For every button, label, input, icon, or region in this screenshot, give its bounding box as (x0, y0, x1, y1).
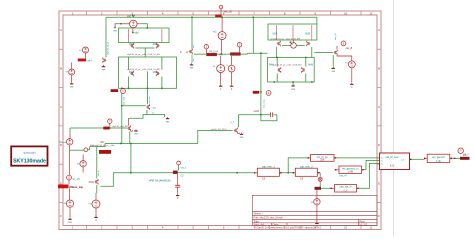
svg-text:+x: +x (65, 71, 68, 74)
svg-text:n_7: n_7 (231, 122, 236, 124)
svg-text:M2A: M2A (129, 71, 134, 74)
border division ticks (59, 11, 381, 230)
node 5 (121, 89, 126, 94)
svg-text:vss: vss (166, 120, 170, 123)
svg-text:net_o2: net_o2 (334, 33, 337, 40)
ground at V8 (94, 216, 97, 218)
voltage source V1 (VDD supply) (130, 20, 138, 28)
voltage source V6 (80, 161, 86, 167)
svg-text:10: 10 (344, 11, 348, 15)
wire C4 to U2 vb (359, 163, 380, 188)
svg-text:Mbias_inp: Mbias_inp (69, 185, 83, 189)
svg-text:Rb: Rb (101, 140, 105, 144)
wire VDD top bus (106, 16, 317, 18)
ground at M12 (190, 63, 193, 65)
svg-text:11: 11 (370, 11, 373, 15)
wire M11 source to V8 (96, 185, 98, 193)
net label in7 flag (103, 127, 109, 130)
wire junctions (109, 16, 313, 173)
svg-text:vdd: vdd (135, 32, 140, 35)
wire R4 to U2 in- (364, 160, 380, 169)
wire R5 to OUT label (453, 157, 461, 159)
ground at M7 (134, 129, 137, 131)
svg-text:in: in (180, 51, 183, 54)
svg-text:res_generic: res_generic (432, 156, 446, 159)
wire tap to R3 (288, 158, 308, 173)
wire mirror arrow feed (293, 40, 295, 43)
wire compensation loop (261, 115, 277, 121)
svg-text:cap_mim_1: cap_mim_1 (262, 165, 276, 168)
IN+ label (60, 141, 64, 144)
device parameter text rows (90, 37, 302, 147)
wire node 7 to bias bus (90, 144, 105, 147)
node 1 (219, 5, 223, 9)
transistor M7 (127, 125, 131, 131)
node pin stubs (69, 123, 110, 184)
svg-text:net_05: net_05 (224, 10, 233, 14)
wire bias bus (105, 143, 198, 145)
wire M3A M3B source drops (276, 47, 312, 58)
voltage source V7 (66, 200, 73, 207)
svg-text:cap_var_lv: cap_var_lv (339, 186, 352, 189)
wire M1A M1B drain pins (128, 29, 162, 43)
wire VDD drop to M12 (191, 17, 193, 49)
resistor block R3 (311, 155, 335, 162)
svg-text:C: C (378, 105, 380, 109)
voltage source V8 (92, 200, 100, 208)
svg-text:vss: vss (331, 70, 335, 73)
svg-text:D: D (378, 143, 380, 147)
svg-text:+v2: +v2 (213, 31, 218, 34)
wire node 6 compensation branch (260, 53, 262, 114)
wire node 7 riser (88, 147, 90, 150)
wire node X to C4 (320, 181, 330, 188)
svg-text:nq: nq (153, 108, 156, 110)
capacitor C7 (compensation) (271, 112, 273, 117)
wire M12 gate stub (186, 51, 188, 53)
resistor R2 (230, 52, 241, 55)
voltage source V2 (divider bias) (218, 32, 226, 40)
wire M8 gate to node 5 net (122, 105, 146, 107)
svg-text:A: A (378, 28, 380, 32)
transistor M9 (234, 128, 238, 134)
transistor M10 (334, 50, 338, 56)
svg-text:net_mir: net_mir (148, 96, 151, 104)
wire M4A M4B drains (277, 58, 306, 67)
transistor M3B (307, 41, 311, 47)
svg-text:vss: vss (68, 221, 72, 224)
svg-text:ota_5t_new: ota_5t_new (386, 156, 399, 159)
transistor M4A (277, 67, 281, 73)
transistor M1B (156, 43, 160, 49)
svg-text:vss: vss (102, 68, 106, 71)
node 10 (67, 175, 72, 180)
svg-text:net05_6.8_(8.0): net05_6.8_(8.0) (211, 128, 227, 131)
svg-text:C5: C5 (262, 178, 266, 181)
wire M4A M4B sources (277, 73, 306, 82)
transistor M4B (302, 67, 306, 73)
node 9a load tap (177, 161, 181, 165)
svg-text:vss: vss (113, 30, 117, 33)
svg-text:res_g,+1: res_g,+1 (209, 50, 219, 53)
net label net_05 flag (215, 15, 221, 18)
wire C6 output (317, 172, 320, 174)
capacitor block C6 (295, 168, 317, 176)
wire VDD into second stage (316, 17, 318, 24)
svg-text:B: B (378, 67, 380, 71)
wire resistor divider row (194, 53, 248, 55)
node 8 (341, 41, 346, 46)
transistor M3A (277, 41, 281, 47)
svg-text:net_c: net_c (181, 166, 187, 169)
wire U2 out to R5 (410, 158, 425, 160)
ground at M9 (240, 133, 243, 135)
ground at V9 (350, 83, 353, 85)
ground at V10 (315, 222, 318, 224)
net label IN+ flag (78, 59, 86, 62)
svg-text:nd: nd (193, 45, 195, 48)
resistor block R4 (339, 166, 362, 174)
svg-text:vb_-2V: vb_-2V (72, 178, 80, 181)
svg-text:net9: net9 (254, 109, 260, 113)
wire C5 to C6 (279, 172, 295, 174)
node 7a (84, 148, 88, 152)
wire V1 negative pin to VSS (115, 24, 121, 26)
U2 pin name labels (381, 157, 405, 165)
svg-text:vss: vss (70, 86, 74, 89)
ground at V3 (219, 84, 222, 86)
svg-text:in-: in- (381, 160, 384, 162)
svg-text:#P(R,%A,)##,MR(,B): #P(R,%A,)##,MR(,B) (149, 180, 171, 183)
wire second-stage PMOS mirror loop (268, 24, 317, 40)
wire rail center to ground (292, 82, 294, 84)
svg-text:0: 0 (95, 219, 97, 222)
sheet border outer (59, 11, 381, 230)
wire V1 positive pin to mirror box (137, 24, 147, 28)
net name labels (101, 10, 353, 144)
svg-text:cap_mim_2: cap_mim_2 (300, 165, 314, 168)
wire IN+ to M7 gate (70, 127, 127, 129)
svg-text:out: out (401, 158, 404, 161)
wire M2A M2B sources to rail (128, 77, 162, 89)
voltage source V10 (vb supply) (314, 199, 320, 205)
node 9 (OUT) (458, 148, 463, 153)
svg-text:C3: C3 (181, 175, 185, 177)
wire M8 source (146, 110, 148, 114)
svg-text:11: 11 (370, 226, 373, 230)
svg-text:M3B: M3B (305, 33, 310, 35)
wire M2A M2B drain pins (128, 57, 162, 70)
transistor M11 (95, 179, 99, 185)
voltage source V5 (IN+ drive) (67, 139, 73, 145)
resistor block R5 (427, 154, 450, 162)
net label net5 flag (253, 91, 259, 94)
ground at M5 (102, 65, 105, 67)
svg-text:0: 0 (231, 88, 233, 91)
svg-text:M1B: M1B (153, 44, 158, 46)
op-amp block U2 (X12 ota_5t_new) (380, 153, 410, 170)
svg-text:IN+: IN+ (60, 141, 64, 144)
wire second stage out to M10 gate (314, 52, 333, 54)
wire M9 drain riser (237, 115, 239, 128)
svg-text:net_cmp: net_cmp (262, 99, 265, 108)
wire IN+ down to V5 (69, 128, 71, 135)
svg-text:sky130_nfet_M7: sky130_nfet_M7 (112, 125, 129, 128)
wire mirror feed to M8 (147, 72, 149, 105)
wire first-stage PMOS mirror loop (119, 28, 170, 43)
svg-text:B: B (60, 67, 62, 71)
svg-text:C: C (60, 105, 62, 109)
node X marker (318, 177, 322, 181)
wire mirror arrow stubs (282, 44, 305, 46)
ground at second-stage rail (291, 84, 294, 86)
svg-text:sky130_fd_pr__pfet_01v8_lvt_M1: sky130_fd_pr__pfet_01v8_lvt_M1 (127, 53, 161, 56)
svg-text:vss: vss (240, 136, 244, 139)
svg-text:KiCad E.D.A. eeschema 5.1.6-c: KiCad E.D.A. eeschema 5.1.6-c6e7f7d~87~u… (255, 226, 323, 230)
svg-text:vss: vss (190, 67, 194, 70)
svg-text:F: F (378, 214, 380, 218)
wire node 5 to bias bus (121, 93, 123, 144)
svg-text:net_b: net_b (97, 170, 100, 176)
svg-text:out_x: out_x (463, 153, 469, 156)
svg-text:Id: 1/1: Id: 1/1 (360, 223, 368, 227)
capacitor C3 (load) (175, 185, 180, 187)
ground at M10 (332, 67, 335, 69)
transistor M12 (189, 49, 193, 55)
block pin wires (255, 158, 453, 188)
sheet border inner (63, 15, 377, 226)
svg-text:0: 0 (351, 86, 353, 89)
svg-text:vdd: vdd (127, 15, 132, 18)
node 7 (108, 119, 112, 123)
wire M7 drain rail (129, 114, 144, 118)
capacitor block C4 (335, 185, 357, 193)
wire M8 source rail (143, 114, 164, 117)
capacitor block C5 (257, 168, 279, 176)
svg-text:+x: +x (345, 62, 348, 65)
svg-text:net_out1: net_out1 (123, 96, 126, 105)
wire R3 to U2 in+ (337, 157, 380, 159)
svg-text:M4A: M4A (269, 63, 274, 66)
svg-text:+x: +x (212, 65, 215, 68)
node bubbles group (67, 5, 464, 181)
wire M7 source to bias bus (129, 132, 131, 144)
voltage source VIN+ (node 4) (83, 47, 89, 53)
svg-text:M2B: M2B (153, 72, 158, 74)
svg-text:M1A: M1A (129, 43, 134, 46)
svg-text:nx: nx (153, 111, 155, 114)
svg-text:C6: C6 (300, 178, 304, 181)
wire to node X (319, 173, 321, 178)
svg-text:+v: +v (310, 201, 313, 204)
svg-text:sky130_fd_pr: sky130_fd_pr (107, 42, 110, 55)
svg-text:net_r4: net_r4 (339, 175, 347, 178)
wire divider jog (247, 52, 249, 55)
wire M1 pair gate link (136, 48, 155, 57)
resistor R1 (206, 53, 217, 56)
svg-text:F: F (60, 214, 62, 218)
svg-text:sky130_fd_pr__pfet_01v8_M3: sky130_fd_pr__pfet_01v8_M3 (271, 37, 301, 40)
transistor M2B (156, 71, 160, 77)
wire M11 drain (96, 147, 98, 179)
net label vb flag (315, 187, 322, 190)
svg-text:net,+: net,+ (87, 59, 93, 62)
transistor M1A (130, 43, 134, 49)
ground at V6a (70, 82, 73, 84)
wire first-stage NMOS mirror loop (119, 57, 177, 88)
current mirror arrow bubble (291, 43, 297, 49)
svg-text:x: x (226, 64, 228, 67)
wire M11 output to filter row (101, 173, 114, 187)
wire filter row net (113, 172, 255, 174)
node 6 (266, 91, 271, 96)
wire M10 bulk to ground (332, 55, 334, 67)
svg-text:A: A (60, 28, 62, 32)
voltage source V6a (input bias) (69, 69, 75, 75)
ground at M8 rail (166, 117, 169, 119)
svg-text:vss: vss (134, 133, 138, 136)
svg-text:net_8: net_8 (345, 46, 352, 50)
svg-text:10: 10 (344, 226, 348, 230)
net label cload flag (173, 171, 178, 174)
wire M9 drain to cap C7 (238, 114, 277, 116)
border reference numerals (60, 11, 380, 229)
pin squares (254, 157, 455, 189)
page boundary gray line (393, 0, 395, 236)
wire node 9 to load cap tap (178, 165, 180, 170)
svg-text:0: 0 (220, 88, 222, 91)
voltage source V9 (M10 bias) (348, 61, 355, 68)
wire VDD drop to input transistor (105, 17, 107, 57)
net label Mbias flag (58, 185, 69, 189)
net label out1 flag (111, 89, 119, 92)
ground at V4 (230, 84, 233, 86)
node 2 (204, 45, 208, 49)
svg-text:1.0M: 1.0M (347, 171, 353, 174)
voltage source V4 (228, 65, 235, 72)
svg-text:MbA sky130_fd_pr__nfet: MbA sky130_fd_pr__nfet (90, 144, 115, 147)
wire VDD drop to second stage (252, 17, 254, 53)
svg-text:vbb: vbb (219, 54, 223, 56)
wire bias bus drop to filter row (130, 144, 132, 173)
transistor M5 (input) (103, 58, 107, 64)
wire divider to second stage (248, 52, 268, 54)
svg-text:vss: vss (291, 88, 295, 91)
svg-text:SKY130made: SKY130made (13, 159, 46, 165)
svg-text:M3A: M3A (273, 32, 278, 35)
wire bias bus to M9 gate (198, 130, 233, 143)
net label VOUT flag (460, 157, 470, 160)
svg-text:simodel: simodel (23, 151, 35, 155)
svg-text:0: 0 (177, 197, 179, 200)
vertical net labels (97, 33, 337, 176)
block name labels (262, 154, 467, 189)
svg-text:X12: X12 (390, 165, 395, 168)
svg-text:ns: ns (193, 58, 195, 61)
voltage source V3 (217, 65, 225, 73)
transistor M8 (146, 104, 150, 110)
wire V5 to node 7 (70, 149, 84, 151)
net label bias flag (99, 150, 111, 154)
svg-text:+x: +x (79, 49, 82, 52)
node 3 (237, 43, 241, 47)
ground at C3 (176, 194, 179, 196)
svg-text:M4B: M4B (308, 64, 313, 66)
ground at V7 (68, 218, 71, 220)
svg-text:1.0k: 1.0k (436, 160, 441, 163)
svg-text:sky130_fd_pr__nfet_01v8_lvt_M2: sky130_fd_pr__nfet_01v8_lvt_M2 (127, 68, 161, 71)
power symbol VSS at V1 (114, 25, 116, 28)
svg-text:sky130_fd_pr__nfet_01v8_M4: sky130_fd_pr__nfet_01v8_M4 (272, 64, 302, 67)
wire second-stage NMOS mirror loop (268, 58, 315, 83)
svg-text:E: E (378, 181, 380, 185)
transistor M2A (130, 71, 134, 77)
